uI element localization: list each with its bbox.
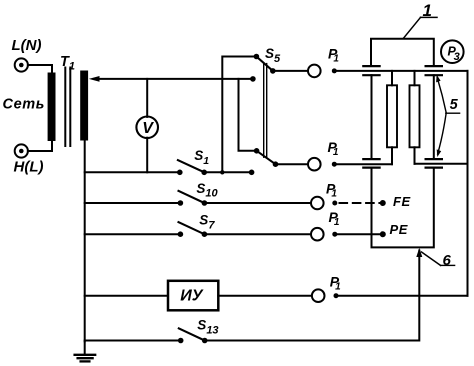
- switch S5 pole B lever: [257, 151, 276, 164]
- meter P3: [441, 40, 464, 63]
- wire bus to S1: [85, 171, 180, 173]
- terminal P1 row2: [308, 158, 321, 171]
- wire H(L) to primary winding: [28, 141, 52, 151]
- leader item 6: [422, 252, 441, 265]
- wire S5 pole B upper throw feed: [239, 79, 257, 151]
- node dot4 S5 pole B upper throw: [254, 148, 260, 154]
- svg-text:Сеть: Сеть: [3, 97, 45, 113]
- terminal P1 row5: [312, 289, 325, 302]
- S5 mechanical link: [263, 64, 265, 158]
- capacitor C1 top-left: [363, 66, 379, 75]
- terminal L(N): [15, 58, 28, 71]
- switch S1: [177, 170, 183, 176]
- svg-text:5: 5: [450, 97, 459, 113]
- svg-text:1: 1: [423, 1, 432, 20]
- appliance box item 6: [372, 168, 434, 248]
- wire S10 to P1: [204, 202, 309, 204]
- node dot5 S5 pole B lower throw: [249, 170, 255, 176]
- dashed wire P1 to FE: [340, 202, 382, 204]
- svg-text:ИУ: ИУ: [180, 288, 204, 305]
- node junction S5 feed: [220, 170, 224, 174]
- node dot2 S5 pole A common: [270, 68, 276, 74]
- wire bus to S7: [85, 233, 181, 235]
- wire L(N) to primary winding: [28, 65, 52, 73]
- capacitor C3 bottom-left: [363, 159, 379, 168]
- svg-text:L(N): L(N): [12, 37, 42, 54]
- ground: [84, 341, 86, 354]
- probe arrow to box 6: [416, 248, 422, 257]
- wire P1 row1 to network: [334, 70, 467, 72]
- node dot6 S5 pole B common: [273, 161, 279, 167]
- transformer T1 primary winding: [48, 73, 56, 142]
- right bus wire: [467, 71, 469, 296]
- voltmeter V: [136, 117, 158, 139]
- wire ИУ to P1: [218, 295, 310, 297]
- voltmeter connection bottom: [146, 138, 148, 173]
- wire S7 to P1: [204, 233, 309, 235]
- terminal H(L): [15, 144, 28, 157]
- capacitor C4 bottom-right: [426, 159, 442, 168]
- wire P1 to PE: [335, 233, 382, 235]
- measuring device ИУ: [168, 281, 218, 311]
- node dot1 S5 pole A upper throw: [254, 54, 260, 60]
- svg-text:FE: FE: [393, 194, 411, 209]
- leader item 1: [404, 17, 421, 37]
- wire secondary tap to S5: [96, 78, 253, 80]
- wire P1 row2 to resistor R1: [334, 163, 392, 165]
- shield bus item 1: [371, 39, 434, 65]
- wire R2 to right bus: [415, 163, 468, 165]
- voltmeter U1 connection top: [146, 79, 148, 117]
- wire bus to S13: [85, 340, 181, 342]
- node PE: [380, 231, 386, 237]
- wire P1 row5 to right bus: [336, 295, 468, 297]
- wire secondary bottom / left bus: [84, 141, 86, 342]
- wire S13 to probe arrow: [205, 251, 420, 341]
- capacitor C2 top-right: [426, 66, 442, 75]
- node dot3 S5 pole A lower throw: [250, 76, 256, 82]
- wire S5 pole B common to P1: [276, 163, 307, 165]
- switch S10: [178, 200, 184, 206]
- switch S13: [178, 338, 184, 344]
- transformer T1 core: [64, 68, 66, 147]
- node FE: [380, 200, 386, 206]
- svg-text:V: V: [142, 120, 154, 137]
- resistor R1: [391, 71, 393, 85]
- terminal P1 row1: [308, 65, 321, 78]
- wire S5 left link vertical: [222, 57, 256, 173]
- svg-text:PE: PE: [390, 222, 409, 237]
- switch S7: [178, 231, 184, 237]
- transformer T1 secondary winding: [80, 71, 88, 141]
- switch S5 pole A lever: [256, 57, 272, 71]
- wire S5 pole A common to P1: [273, 70, 307, 72]
- wire bus to S10: [85, 202, 181, 204]
- variac arrow on secondary: [89, 76, 100, 82]
- svg-text:6: 6: [443, 252, 452, 269]
- terminal P1 row3: [311, 197, 324, 210]
- wire bus to measuring device: [85, 295, 168, 297]
- svg-text:H(L): H(L): [14, 158, 44, 175]
- leader item 5: [437, 78, 446, 113]
- wire S1 to S5 pole B lower throw: [204, 171, 251, 173]
- terminal P1 row4: [311, 228, 324, 241]
- resistor R2: [414, 71, 416, 85]
